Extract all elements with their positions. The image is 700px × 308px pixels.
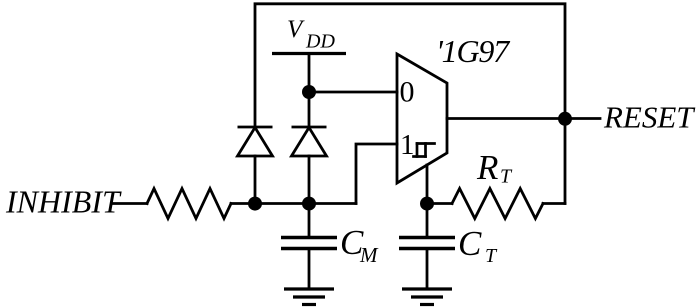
junction dot select/CT/RT	[420, 197, 434, 211]
wire top feedback rail	[255, 4, 565, 204]
capacitor CM	[281, 238, 337, 249]
svg-text:RESET: RESET	[603, 100, 696, 135]
junction dot RESET	[558, 112, 572, 126]
label RT	[476, 148, 513, 188]
svg-text:0: 0	[400, 76, 415, 109]
svg-text:M: M	[359, 243, 379, 267]
ground (CT)	[402, 289, 452, 305]
capacitor CT	[399, 238, 455, 249]
label CM	[340, 223, 379, 267]
wire VDD bar to node to diode D2	[308, 54, 311, 128]
wire rail corner up to mux input 1	[356, 144, 397, 204]
wire INHIBIT lead	[113, 202, 147, 205]
svg-text:T: T	[485, 245, 498, 267]
wire CT top	[426, 204, 429, 238]
wire RT left lead	[427, 202, 452, 205]
junction dot D2/rail	[302, 197, 316, 211]
pulse symbol on pin 1	[414, 144, 435, 157]
svg-text:T: T	[500, 166, 513, 188]
svg-text:R: R	[476, 148, 498, 187]
diode D1	[238, 127, 273, 156]
wire diode D2 anode to rail	[308, 156, 311, 204]
mux U1 '1G97 outline	[397, 54, 447, 183]
resistor RT	[452, 189, 543, 219]
VDD power bar	[272, 52, 346, 55]
wire mux select pin	[426, 165, 429, 204]
wire RT right lead	[543, 202, 565, 205]
wire diode D1 anode to rail	[254, 156, 257, 204]
wire mux output to RESET	[447, 117, 600, 120]
svg-text:INHIBIT: INHIBIT	[5, 184, 122, 220]
wire node A to mux input 0	[309, 91, 397, 94]
node A junction dot (VDD to mux 0)	[302, 85, 316, 99]
diode D2	[292, 127, 327, 156]
wire rail from R1 to corner	[231, 202, 356, 205]
wire CM bottom to ground	[308, 249, 311, 288]
ground (CM)	[284, 289, 334, 305]
resistor R1 (INHIBIT series)	[147, 189, 231, 219]
svg-text:'1G97: '1G97	[436, 33, 511, 69]
svg-text:C: C	[458, 224, 482, 263]
wire CM top	[308, 204, 311, 238]
label VDD	[287, 16, 335, 53]
junction dot D1/rail	[248, 197, 262, 211]
svg-text:DD: DD	[305, 31, 335, 53]
label CT	[458, 224, 498, 267]
wire CT bottom to ground	[426, 249, 429, 288]
